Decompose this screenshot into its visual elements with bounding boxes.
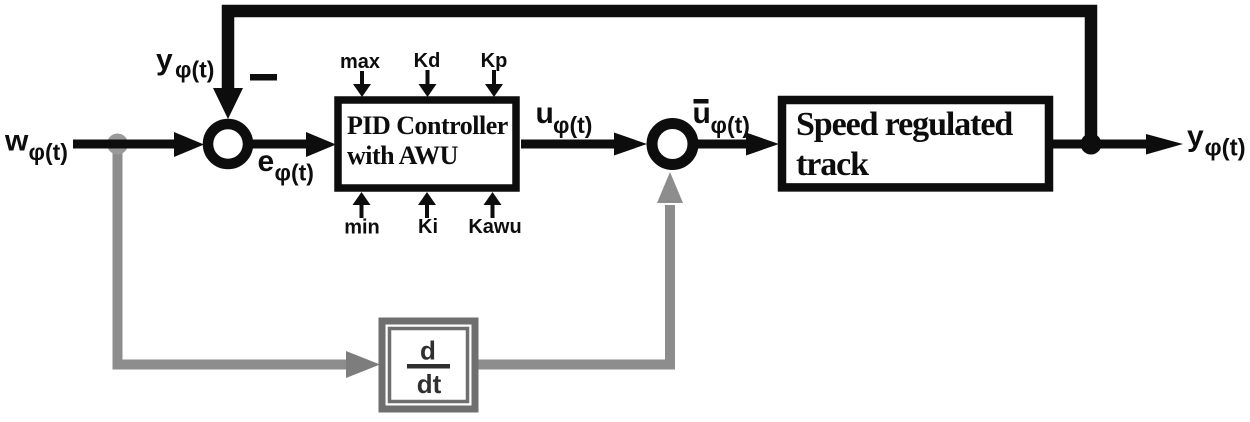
svg-text:φ(t): φ(t) xyxy=(553,112,592,138)
svg-text:Kawu: Kawu xyxy=(468,216,521,238)
svg-text:min: min xyxy=(344,217,380,239)
svg-text:Kp: Kp xyxy=(481,50,508,72)
svg-text:track: track xyxy=(796,146,869,183)
svg-text:d: d xyxy=(420,336,436,366)
svg-text:Kd: Kd xyxy=(414,50,441,72)
svg-text:φ(t): φ(t) xyxy=(175,57,214,83)
svg-text:e: e xyxy=(258,145,275,178)
svg-text:φ(t): φ(t) xyxy=(1205,135,1246,162)
svg-text:with AWU: with AWU xyxy=(347,141,459,170)
svg-text:w: w xyxy=(4,125,29,158)
svg-text:dt: dt xyxy=(417,369,442,399)
svg-text:φ(t): φ(t) xyxy=(275,160,314,186)
svg-text:y: y xyxy=(156,44,173,77)
svg-text:u: u xyxy=(536,97,554,130)
svg-text:Ki: Ki xyxy=(418,216,438,238)
svg-text:PID Controller: PID Controller xyxy=(347,111,508,140)
svg-text:y: y xyxy=(1187,120,1204,153)
svg-text:max: max xyxy=(340,51,380,73)
svg-text:Speed regulated: Speed regulated xyxy=(796,106,1013,143)
svg-text:φ(t): φ(t) xyxy=(711,112,750,138)
svg-text:φ(t): φ(t) xyxy=(29,139,68,165)
